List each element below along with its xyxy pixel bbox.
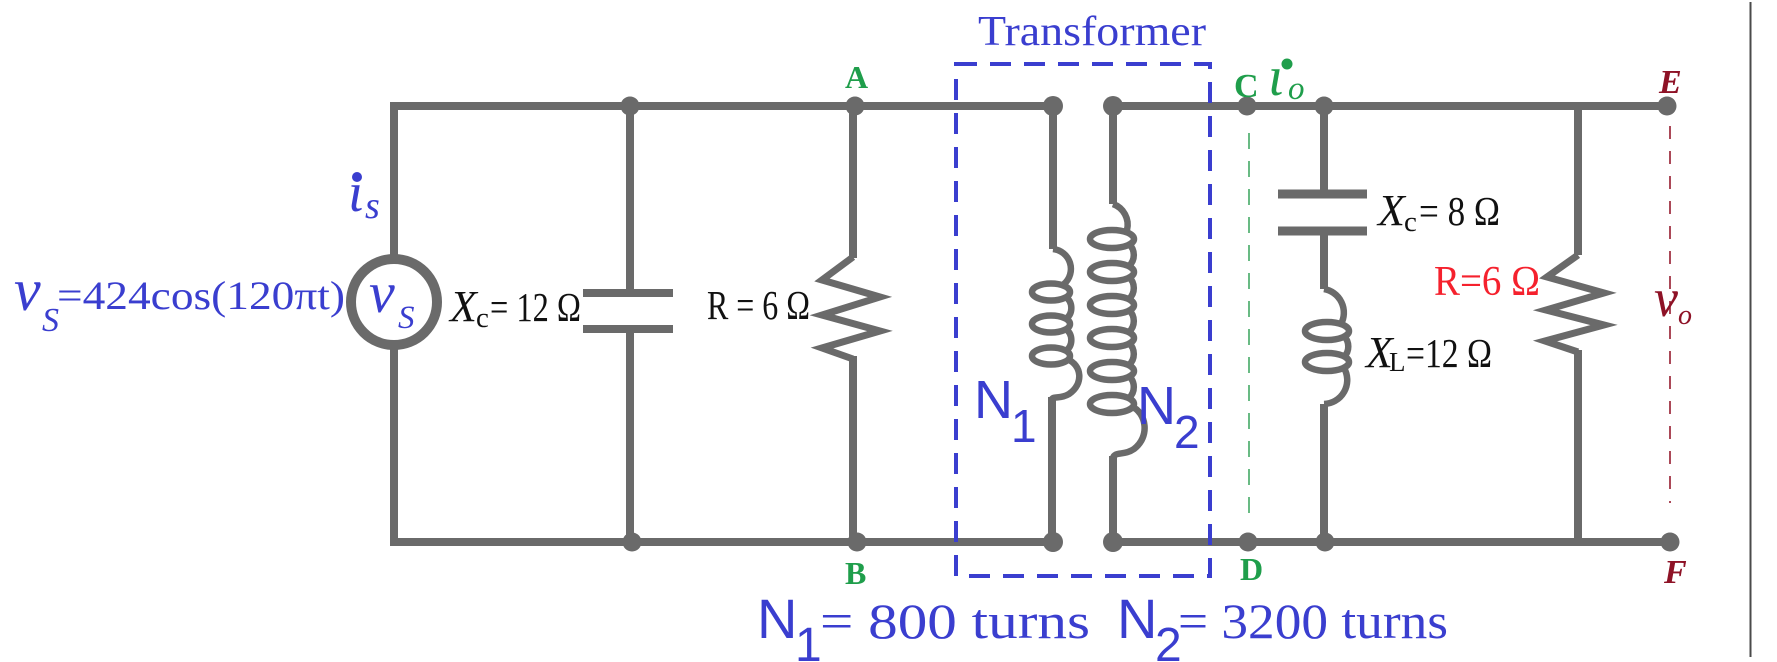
svg-text:c: c [476, 302, 489, 334]
capacitor XC1 branch wires [626, 106, 634, 289]
resistor R1 zigzag [822, 257, 880, 359]
svg-text:= 800 turns: = 800 turns [820, 593, 1090, 649]
svg-text:S: S [398, 300, 415, 336]
node D dot [1239, 533, 1258, 552]
svg-text:R=6 Ω: R=6 Ω [1434, 259, 1540, 305]
capacitor XC2 plates [1278, 190, 1367, 199]
svg-text:v: v [369, 260, 395, 325]
svg-text:s: s [365, 185, 380, 227]
wire top-left horizontal [390, 102, 1054, 110]
node dot bottom cap branch [623, 533, 642, 552]
inductor XL coil [1324, 289, 1344, 324]
inductor N1 wires [1049, 106, 1057, 249]
svg-text:ι: ι [1268, 46, 1284, 108]
svg-text:= 8 Ω: = 8 Ω [1419, 188, 1500, 234]
resistor R2 branch wires [1574, 106, 1582, 255]
svg-text:N: N [974, 370, 1013, 430]
node B dot [848, 533, 867, 552]
svg-text:N: N [757, 587, 797, 650]
svg-text:N: N [1137, 376, 1176, 436]
node dot N1 bottom [1043, 532, 1063, 552]
wire left vertical upper [390, 102, 398, 261]
node E dot [1658, 97, 1677, 116]
node A dot [846, 97, 865, 116]
svg-text:A: A [845, 59, 868, 95]
svg-text:X: X [448, 282, 479, 331]
label is [352, 172, 362, 182]
inductor N2 coil [1113, 204, 1128, 230]
svg-text:1: 1 [795, 619, 822, 662]
node dot XL bottom [1316, 533, 1335, 552]
capacitor XC2 branch wires [1320, 106, 1328, 190]
svg-text:= 12 Ω: = 12 Ω [490, 284, 581, 330]
inductor XL lower wire [1320, 404, 1328, 542]
node F dot [1661, 533, 1680, 552]
resistor R1 branch wires [849, 106, 857, 258]
node dot N1 top [1043, 96, 1063, 116]
svg-text:=12 Ω: =12 Ω [1406, 330, 1492, 376]
node dot N2 bottom [1103, 532, 1123, 552]
svg-text:X: X [1376, 186, 1407, 235]
svg-text:B: B [845, 555, 866, 591]
svg-text:v: v [1654, 268, 1678, 328]
svg-text:N: N [1117, 587, 1157, 650]
svg-text:Transformer: Transformer [978, 9, 1206, 55]
svg-text:2: 2 [1174, 406, 1200, 458]
inductor N1 coil [1053, 249, 1071, 284]
svg-text:E: E [1658, 64, 1682, 101]
node dot XC2 top [1315, 97, 1334, 116]
svg-text:C: C [1234, 68, 1259, 105]
svg-text:1: 1 [1011, 400, 1037, 452]
node C-D dashed green line [1248, 133, 1250, 515]
wire top-right horizontal [1113, 102, 1667, 110]
svg-text:R = 6 Ω: R = 6 Ω [707, 282, 810, 328]
node dot top cap branch [621, 97, 640, 116]
svg-text:= 3200 turns: = 3200 turns [1178, 593, 1448, 649]
svg-text:L: L [1389, 347, 1406, 377]
node E-F dashed maroon line [1669, 126, 1671, 503]
wire bottom-left horizontal [390, 538, 1054, 546]
svg-text:F: F [1663, 554, 1687, 591]
svg-text:o: o [1678, 300, 1692, 331]
inductor N2 wires [1109, 106, 1117, 204]
node C dot [1238, 97, 1257, 116]
page border line right [1750, 2, 1752, 657]
label io [1282, 59, 1293, 70]
voltage source VS circle [351, 259, 437, 345]
svg-text:D: D [1240, 551, 1263, 587]
resistor R2 zigzag [1545, 255, 1604, 352]
svg-text:ι: ι [348, 162, 364, 224]
svg-text:c: c [1404, 206, 1417, 238]
wire bottom-right horizontal [1113, 538, 1670, 546]
node dot N2 top [1103, 96, 1123, 116]
svg-text:v: v [14, 257, 41, 323]
wire left vertical lower [390, 347, 398, 546]
transformer dashed box [956, 64, 1210, 576]
capacitor XC1 plates [583, 289, 673, 297]
svg-text:=424cos(120πt): =424cos(120πt) [57, 273, 345, 318]
svg-text:o: o [1288, 71, 1305, 107]
